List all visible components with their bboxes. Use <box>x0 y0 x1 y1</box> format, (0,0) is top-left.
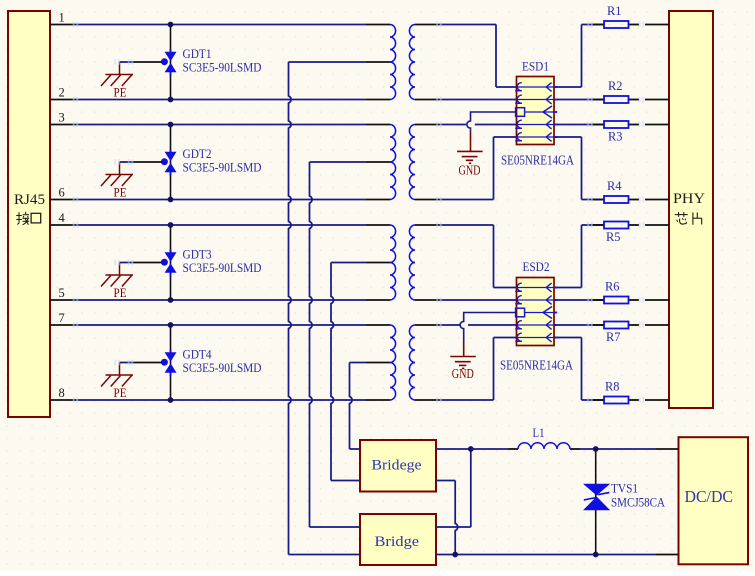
PHY label CJK 芯片 <box>675 212 688 224</box>
transformer T3 secondary winding <box>409 225 415 300</box>
wire L1 row (junction A to DC/DC) <box>471 448 679 450</box>
svg-text:TVS1: TVS1 <box>611 481 638 496</box>
svg-text:Bridege: Bridege <box>372 458 422 474</box>
svg-text:ESD2: ESD2 <box>523 259 550 274</box>
PHY chip box <box>669 11 713 408</box>
svg-text:PE: PE <box>114 86 127 100</box>
svg-text:SC3E5-90LSMD: SC3E5-90LSMD <box>183 260 262 275</box>
wire ESD2 pin5 to R8 row <box>554 338 582 401</box>
wire T4 center tap to Bridege1 upper input <box>350 363 367 450</box>
svg-text:7: 7 <box>59 311 65 325</box>
PE earth symbol 4 <box>101 363 133 387</box>
svg-text:GND: GND <box>459 163 481 178</box>
DC/DC converter box U5 <box>679 437 749 564</box>
wire row1 secondary (coil to ESD1 pin1 corner) <box>415 25 517 88</box>
svg-text:5: 5 <box>59 286 65 300</box>
svg-text:4: 4 <box>59 211 66 225</box>
junction dot TVS top <box>593 446 599 452</box>
svg-text:PHY: PHY <box>673 191 706 207</box>
wire row R1 (to PHY) <box>582 24 670 26</box>
resistor R7 <box>604 322 629 329</box>
wire T2 center tap to Bridge2 upper input <box>310 162 367 527</box>
wire PE to GDT2 <box>120 161 163 163</box>
wire row R2 (to PHY) <box>582 99 670 101</box>
wire end markers <box>73 22 645 403</box>
junction dot A (L1 input node) <box>468 446 474 452</box>
junction dot GDT2 bottom <box>168 197 174 203</box>
wire Bridge2 out top horizontal <box>436 526 471 528</box>
wire row pin 8 primary (RJ45 to transformer) <box>50 399 390 401</box>
resistor R6 <box>604 297 629 304</box>
svg-text:SC3E5-90LSMD: SC3E5-90LSMD <box>183 160 262 175</box>
resistor R5 <box>604 222 629 229</box>
svg-text:R3: R3 <box>608 129 623 144</box>
svg-text:R2: R2 <box>608 78 623 93</box>
svg-text:SMCJ58CA: SMCJ58CA <box>611 495 666 510</box>
PE earth symbol 1 <box>101 62 133 86</box>
wire ESD2 pin4 to R7 row <box>554 324 582 326</box>
svg-text:R7: R7 <box>606 329 621 344</box>
wire row6 secondary (coil to ESD1 pin5 corner) <box>415 137 517 200</box>
junction dot GDT4 bottom <box>168 397 174 403</box>
resistor R2 <box>604 96 629 103</box>
svg-text:R1: R1 <box>607 3 622 18</box>
junction dot GDT3 bottom <box>168 297 174 303</box>
svg-text:1: 1 <box>59 11 65 25</box>
junction dot GDT3 top <box>168 222 174 228</box>
wire row3 secondary (coil to ESD1 pin4, gap at GND stem hop) <box>415 124 517 126</box>
wire row R4 (to PHY) <box>582 199 670 201</box>
svg-text:PE: PE <box>114 386 127 400</box>
resistor R8 <box>604 397 629 404</box>
wire row pin 1 primary (RJ45 to transformer) <box>50 24 390 26</box>
svg-text:Bridge: Bridge <box>375 534 420 550</box>
wire row pin 3 primary (RJ45 to transformer) <box>50 124 390 126</box>
svg-text:8: 8 <box>59 386 65 400</box>
RJ45 label CJK 接口 <box>16 212 29 225</box>
TVS diode TVS1 <box>583 484 610 511</box>
PE earth symbol 2 <box>101 162 133 186</box>
svg-text:GND: GND <box>452 366 474 381</box>
wire Bridge2 upper output (with hop) <box>455 481 458 555</box>
resistor R1 <box>604 21 629 28</box>
transformer T4 primary winding <box>390 325 396 400</box>
svg-text:SC3E5-90LSMD: SC3E5-90LSMD <box>183 60 262 75</box>
wire row4 secondary (coil to ESD2 pin1 corner) <box>415 225 517 288</box>
svg-text:L1: L1 <box>533 426 545 440</box>
wire row5 secondary (coil to ESD2 pin2) <box>415 299 517 301</box>
wire ESD1 pin3 to GND <box>467 112 517 131</box>
svg-text:PE: PE <box>114 286 127 300</box>
svg-text:3: 3 <box>59 111 65 125</box>
wire junction A down to Bridge2 upper output <box>470 449 472 527</box>
junction dot TVS bottom <box>593 552 599 558</box>
svg-text:RJ45: RJ45 <box>14 192 45 208</box>
transformer T2 primary center tap pin <box>366 161 390 163</box>
wire row2 secondary (coil to ESD1 pin2) <box>415 99 517 101</box>
ESD protection chip ESD2 SE05NRE14GA <box>515 278 557 346</box>
svg-text:ESD1: ESD1 <box>522 59 549 74</box>
svg-text:R8: R8 <box>605 378 620 393</box>
junction dot GDT2 top <box>168 122 174 128</box>
svg-text:R4: R4 <box>607 178 622 193</box>
resistor R4 <box>604 196 629 203</box>
transformer T1 secondary winding <box>409 25 415 100</box>
wire row7 secondary (coil to ESD2 pin4, gap at GND stem hop) <box>415 324 517 326</box>
transformer T4 primary center tap pin <box>366 362 390 364</box>
inductor L1 <box>518 443 570 449</box>
ESD protection chip ESD1 SE05NRE14GA <box>515 77 557 145</box>
wire T3 center tap to Bridege1 lower input <box>331 263 366 481</box>
wire bottom rail (Bridge2 lower output to DC/DC) <box>436 554 679 556</box>
wire row R8 (to PHY) <box>582 399 670 401</box>
wire TVS column (black) <box>595 449 597 555</box>
svg-text:R5: R5 <box>606 229 621 244</box>
wire PE to GDT1 <box>120 61 163 63</box>
power ground symbol GND1 <box>457 131 483 164</box>
wire ESD1 pin1 to R1 row <box>554 25 582 88</box>
svg-text:SE05NRE14GA: SE05NRE14GA <box>500 358 573 373</box>
transformer T4 secondary winding <box>409 325 415 400</box>
svg-text:2: 2 <box>59 86 65 100</box>
power ground symbol GND2 <box>450 342 476 368</box>
bridge rectifier box 1 (Bridege) <box>360 440 436 492</box>
wire row pin 7 primary (RJ45 to transformer) <box>50 324 390 326</box>
svg-text:DC/DC: DC/DC <box>685 487 734 506</box>
wire PE to GDT4 <box>120 362 163 364</box>
gas discharge tube GDT4 <box>161 325 177 400</box>
wire row R5 (to PHY) <box>582 224 670 226</box>
transformer T1 primary winding <box>390 25 396 100</box>
RJ45 connector box <box>8 11 50 417</box>
junction dot GDT1 bottom <box>168 97 174 103</box>
wire ESD1 pin2 to R2 row <box>554 99 582 101</box>
transformer T2 primary winding <box>390 125 396 200</box>
wire PE to GDT3 <box>120 262 163 264</box>
wire row pin 2 primary (RJ45 to transformer) <box>50 99 390 101</box>
wire row R3 (to PHY) <box>582 124 670 126</box>
wire ESD2 pin2 to R6 row <box>554 299 582 301</box>
resistor R3 <box>604 121 629 128</box>
wire ESD2 pin3 to GND <box>460 313 516 343</box>
transformer T3 primary winding <box>390 225 396 300</box>
junction dot GDT4 top <box>168 322 174 328</box>
wire row R7 (to PHY) <box>582 324 670 326</box>
transformer T1 primary center tap pin <box>366 61 390 63</box>
wire row pin 6 primary (RJ45 to transformer) <box>50 199 390 201</box>
bridge rectifier box 2 (Bridge) <box>360 514 436 565</box>
junction dot B (bottom rail) <box>452 552 458 558</box>
wire ESD1 pin4 to R3 row <box>554 124 582 126</box>
wire ESD2 pin1 to R5 row <box>554 225 582 288</box>
wire ESD1 pin5 to R4 row <box>554 137 582 200</box>
wire row pin 5 primary (RJ45 to transformer) <box>50 299 390 301</box>
svg-text:SE05NRE14GA: SE05NRE14GA <box>501 153 574 168</box>
svg-text:PE: PE <box>114 186 127 200</box>
gas discharge tube GDT2 <box>161 125 177 200</box>
wire row pin 4 primary (RJ45 to transformer) <box>50 224 390 226</box>
wire Bridege1 output top to junction A <box>436 448 471 450</box>
gas discharge tube GDT3 <box>161 225 177 300</box>
wire Bridege1 output bottom to corner <box>436 480 455 482</box>
svg-text:R6: R6 <box>605 278 620 293</box>
wire row R6 (to PHY) <box>582 299 670 301</box>
wire row8 secondary (coil to ESD2 pin5 corner) <box>415 338 517 401</box>
transformer T3 primary center tap pin <box>366 262 390 264</box>
junction dot GDT1 top <box>168 22 174 28</box>
svg-text:6: 6 <box>59 186 65 200</box>
wire T1 center tap to Bridge2 lower input <box>289 62 367 555</box>
svg-text:SC3E5-90LSMD: SC3E5-90LSMD <box>183 360 262 375</box>
PE earth symbol 3 <box>101 263 133 287</box>
gas discharge tube GDT1 <box>161 25 177 100</box>
transformer T2 secondary winding <box>409 125 415 200</box>
